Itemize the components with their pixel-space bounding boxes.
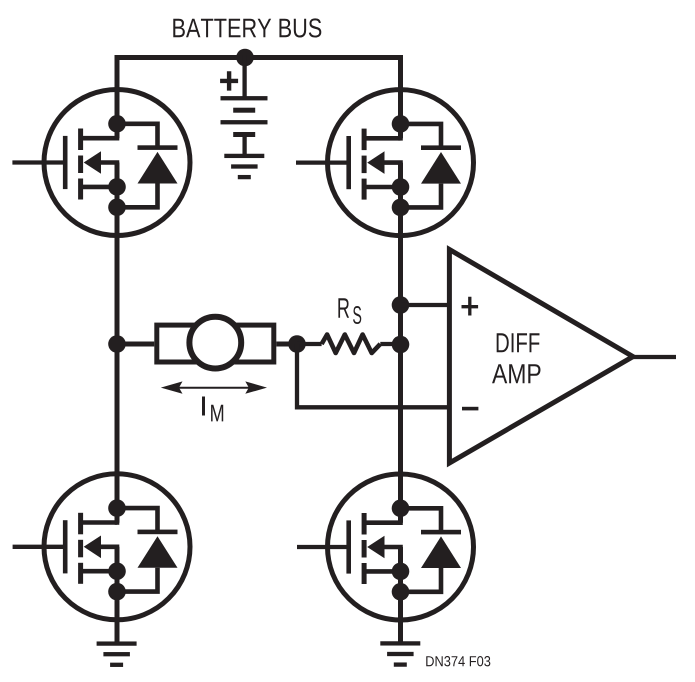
wire: motor right lead — [276, 342, 297, 347]
op-amp U1 DIFF AMP triangle — [449, 250, 633, 464]
wire: motor left lead — [117, 342, 154, 347]
motor M1 frame — [157, 325, 274, 362]
battery B1 plates — [221, 96, 268, 137]
wire: Q1 gate stub — [12, 160, 64, 164]
resistor RS zigzag — [322, 335, 381, 354]
wire: right rail from Q2 source through sense nodes down to Q4 drain — [398, 163, 403, 523]
op-amp - input label — [462, 407, 478, 411]
ground: battery ground symbol — [224, 154, 264, 180]
wire: Q4 gate stub — [297, 545, 348, 549]
transistor Q1 (top-left N-channel MOSFET with body diode) — [44, 90, 190, 236]
wire: op-amp output — [633, 355, 676, 359]
label IM current arrow (double headed) — [161, 381, 267, 393]
wire: inverting sense branch from motor node down and right to diff amp — [297, 344, 452, 407]
transistor Q3 (bottom-left N-channel MOSFET with body diode) — [44, 474, 190, 620]
wire: left rail from bus into Q1 drain — [115, 55, 120, 138]
wire: battery positive lead from bus — [242, 55, 246, 98]
transistor Q2 (top-right N-channel MOSFET with body diode) — [328, 90, 474, 236]
battery + polarity label — [220, 71, 238, 90]
node: RS right junction on right rail — [392, 336, 410, 354]
transistor Q4 (bottom-right N-channel MOSFET with body diode) — [328, 474, 474, 620]
wire: Q3 source to ground — [115, 547, 120, 644]
wire: Q4 source to ground — [398, 547, 403, 643]
node: motor right terminal junction — [288, 335, 306, 353]
ground: Q4 source ground symbol — [380, 641, 420, 667]
node: + sense branch junction on right rail — [392, 296, 410, 314]
resistor RS label — [338, 298, 361, 324]
wire: left rail from Q1 source through motor node down to Q3 drain — [115, 163, 120, 523]
ground: Q3 source ground symbol — [97, 641, 137, 667]
label DN374 F03 figure tag — [426, 656, 490, 666]
node: motor left terminal junction — [108, 335, 126, 353]
wire: Q2 gate stub — [296, 160, 348, 164]
motor M1 rotor circle — [189, 317, 241, 369]
wire: battery negative lead to ground — [242, 135, 246, 156]
op-amp DIFF AMP text — [492, 333, 540, 383]
wire: resistor RS to right rail — [380, 342, 400, 346]
node: battery tap junction on bus — [236, 49, 254, 67]
wire: Q3 gate stub — [13, 545, 64, 549]
label IM text — [202, 397, 223, 422]
wire: battery bus horizontal rail — [115, 55, 404, 60]
wire: right rail from bus into Q2 drain — [398, 55, 403, 138]
wire: motor node to resistor RS — [297, 342, 322, 346]
op-amp + input label — [462, 297, 479, 316]
wire: noninverting input branch to diff amp — [401, 303, 452, 307]
label BATTERY BUS — [173, 18, 321, 37]
